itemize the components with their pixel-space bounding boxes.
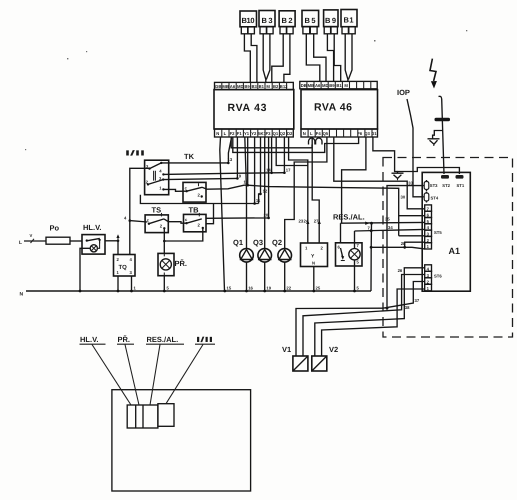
switch TS — [145, 206, 168, 233]
svg-text:22: 22 — [286, 285, 291, 290]
svg-text:ST5: ST5 — [434, 230, 442, 235]
svg-text:I/II: I/II — [196, 335, 213, 344]
junction HL.V. lamp on N bus — [79, 290, 82, 293]
svg-text:IOP: IOP — [397, 88, 410, 97]
wire TB-2 down and left to PR junction — [164, 228, 203, 241]
component ST3 — [424, 180, 438, 191]
svg-text:N: N — [20, 292, 24, 298]
MIDWIRES — [140, 137, 424, 310]
wire TS-1 to TB-c — [164, 219, 187, 223]
wire RVA46 to RES/AL junction — [342, 137, 366, 223]
svg-text:Q5: Q5 — [323, 131, 329, 136]
wire V1-R to A1-t3b — [303, 275, 425, 357]
wire TQ-3 to N bus — [131, 276, 133, 291]
wire B9 right to RVA46 — [334, 34, 341, 82]
svg-text:D2: D2 — [287, 131, 293, 136]
wire Q3 to N bus — [264, 262, 266, 291]
svg-text:F1: F1 — [237, 131, 243, 136]
junction Q3 on N bus, wire 19 — [263, 290, 266, 293]
wire 35 line to A1-t5 — [341, 217, 425, 243]
wire 20 TB to RVA43 — [206, 137, 270, 219]
wire B10 left to RVA43 — [244, 34, 250, 83]
svg-text:V1: V1 — [282, 345, 291, 354]
svg-text:15: 15 — [227, 285, 232, 290]
sensor B1 — [341, 10, 357, 34]
neutral bus wire — [26, 290, 371, 292]
svg-text:A6: A6 — [315, 83, 321, 88]
svg-text:F4: F4 — [316, 131, 322, 136]
vertical junction wire x371 — [370, 223, 373, 291]
wire V1-L to A1-t2b — [296, 282, 425, 357]
svg-text:N: N — [216, 131, 219, 136]
pump Q3 — [253, 238, 272, 262]
svg-text:N: N — [312, 261, 315, 266]
neutral line into A1 area — [371, 247, 425, 249]
sensor B9 — [324, 10, 338, 34]
wire B1 left (V merge) — [345, 34, 348, 82]
arrester electrode bar — [435, 118, 451, 121]
junction RVA43-N on N bus, wire 15 — [223, 290, 226, 293]
dashed enclosure — [383, 158, 513, 338]
PUMPS — [233, 238, 292, 291]
feed Y2 from RVA46 — [312, 137, 321, 243]
svg-text:B9: B9 — [244, 84, 250, 89]
selector switch I/II — [125, 149, 169, 195]
wire 9 I/II to RVA43 — [163, 137, 242, 180]
svg-text:RVA 46: RVA 46 — [314, 102, 352, 114]
svg-text:B3: B3 — [252, 84, 258, 89]
svg-text:Q2: Q2 — [272, 238, 282, 247]
wire 12 — [259, 137, 268, 204]
ground symbol (inside enclosure) — [392, 173, 404, 180]
svg-text:A6: A6 — [230, 84, 236, 89]
svg-text:B2: B2 — [273, 84, 279, 89]
svg-text:B9: B9 — [329, 83, 335, 88]
svg-text:TB: TB — [189, 206, 200, 215]
module A1 body — [422, 172, 470, 291]
wire 34 line to A1-t4 — [355, 225, 425, 249]
signal lamp PR — [158, 253, 187, 275]
svg-text:B1: B1 — [259, 84, 265, 89]
svg-text:A1: A1 — [449, 246, 461, 256]
wire TQ-1 to N bus — [117, 276, 119, 291]
svg-text:38: 38 — [405, 305, 410, 310]
svg-text:L: L — [19, 240, 22, 246]
svg-text:MB: MB — [308, 83, 315, 88]
wire L to fuse — [24, 240, 46, 242]
feed Q2 from RVA46 — [285, 137, 327, 249]
wire junction to TQ-2 — [117, 241, 119, 255]
svg-text:28: 28 — [401, 241, 406, 246]
wire B10 right to RVA43 — [251, 34, 257, 83]
svg-text:ST4: ST4 — [431, 196, 439, 201]
wire TS-2 down to PR junction — [163, 228, 165, 241]
wire fuse to HL.V. — [70, 240, 82, 242]
wire B2 left to RVA43 — [272, 34, 283, 83]
reset/alarm unit RES./AL. — [333, 213, 365, 267]
svg-text:L: L — [310, 131, 313, 136]
svg-text:B12: B12 — [280, 84, 288, 89]
svg-text:Q1: Q1 — [273, 131, 279, 136]
svg-text:30: 30 — [401, 195, 406, 200]
wire 10 TK to A1-t6 — [202, 137, 425, 236]
pump Q2 — [272, 238, 292, 262]
svg-text:25: 25 — [316, 285, 321, 290]
PANEL — [80, 335, 251, 491]
svg-text:13: 13 — [228, 157, 233, 162]
link wire h3 RVA43 to RVA46 — [233, 137, 359, 152]
mechanical link bars — [154, 171, 156, 181]
svg-text:35: 35 — [385, 217, 390, 222]
svg-text:ST6: ST6 — [434, 274, 442, 279]
junction TQ-1 on N bus — [117, 290, 120, 293]
svg-text:17: 17 — [286, 168, 291, 173]
svg-text:Q2: Q2 — [280, 131, 286, 136]
branch to TS input — [130, 221, 148, 222]
arrester ground branch — [433, 131, 443, 139]
label I/II with leader — [166, 335, 215, 404]
main switch HL.V. — [80, 223, 105, 291]
control panel outline — [112, 390, 251, 491]
RVA46 top terminal strip — [300, 81, 377, 88]
svg-text:34: 34 — [388, 225, 393, 230]
RVA46 — [300, 81, 378, 144]
VVALVES — [282, 345, 338, 371]
wire Y-N to bus — [313, 267, 315, 292]
svg-text:F6: F6 — [357, 131, 363, 136]
wire 33 RVA46 to ST3 and A1-t7 — [334, 137, 425, 310]
sensor B2 — [279, 11, 295, 34]
svg-text:11: 11 — [256, 198, 261, 203]
wire IOP down to ST4 — [407, 99, 424, 197]
pad ST1 — [456, 175, 464, 179]
scan specks — [25, 30, 467, 150]
wire RVA43-N to bus — [220, 137, 225, 291]
label HL.V. with leader — [80, 335, 132, 405]
RVA43 bottom terminal strip — [215, 129, 294, 137]
svg-text:24: 24 — [304, 219, 309, 224]
connector humps below RVA46 N,L — [309, 138, 315, 145]
wire B3 left (V merge) — [263, 34, 266, 83]
svg-text:Q3: Q3 — [253, 238, 263, 247]
svg-text:V: V — [30, 233, 33, 238]
svg-text:MD: MD — [237, 84, 244, 89]
link wire h1 RVA43 to RVA46 — [231, 137, 312, 148]
A1 lower terminal block 4..1 — [425, 265, 443, 291]
svg-text:M: M — [344, 83, 348, 88]
pump Q1 — [233, 238, 253, 262]
wire B3 right (V merge) — [266, 34, 270, 80]
wire B1 right (V merge) — [348, 34, 352, 80]
RIGHTAREA — [383, 59, 513, 337]
svg-text:ST2: ST2 — [442, 183, 450, 188]
svg-text:F3: F3 — [266, 131, 272, 136]
svg-text:16: 16 — [248, 285, 253, 290]
pad ST2 — [441, 175, 449, 179]
switch TK — [183, 152, 206, 202]
SWITCHES — [125, 149, 214, 292]
svg-text:HL.V.: HL.V. — [83, 223, 101, 232]
YBOX — [0, 0, 1, 1]
feed Q1 — [245, 137, 247, 249]
feed Y1 from RVA43 — [276, 137, 309, 243]
wire PR bottom to N bus — [163, 276, 165, 291]
svg-text:Po: Po — [50, 224, 60, 233]
junction RES lamp on N bus, wire 5 — [353, 290, 356, 293]
panel control strip — [127, 404, 174, 428]
wire Q1 to N bus — [246, 262, 248, 291]
svg-text:L: L — [224, 131, 227, 136]
RVA43 — [214, 82, 294, 137]
valve V2 — [312, 345, 338, 371]
sensor B3 — [259, 11, 275, 34]
LEFTAREA — [19, 168, 149, 291]
RVA43 top terminal strip — [215, 82, 294, 89]
wire B5 right to RVA46 — [314, 34, 326, 82]
svg-text:TS: TS — [152, 206, 162, 215]
svg-text:B1: B1 — [344, 16, 354, 25]
svg-text:ST1: ST1 — [457, 183, 465, 188]
lightning strike symbol — [430, 59, 437, 89]
wire V2-R to A1-t1b — [322, 289, 425, 356]
svg-text:MD: MD — [322, 83, 329, 88]
svg-text:27: 27 — [314, 219, 319, 224]
sensor B10 — [240, 11, 257, 34]
svg-text:PŘ.: PŘ. — [175, 259, 188, 268]
svg-text:Q3: Q3 — [364, 131, 370, 136]
svg-text:ST3: ST3 — [430, 183, 438, 188]
SENSORS — [240, 10, 357, 34]
svg-text:TQ: TQ — [119, 264, 128, 271]
wire B2 right to RVA43 — [284, 34, 290, 83]
wire Q2 to N bus — [284, 262, 286, 291]
RVA46 bottom terminal strip — [301, 129, 378, 137]
junction PR lamp on N bus — [163, 290, 166, 293]
svg-text:N: N — [303, 131, 306, 136]
svg-text:Q1: Q1 — [233, 238, 243, 247]
wire B5 left to RVA46 — [306, 34, 320, 82]
wire 11 I/II to RVA43 — [140, 137, 261, 205]
disconnect tick on L wire — [31, 239, 35, 243]
SENSORWIRES — [244, 34, 352, 83]
svg-text:I/II: I/II — [125, 149, 145, 158]
svg-text:RES./AL.: RES./AL. — [147, 335, 179, 344]
wire 13 I/II to RVA43 — [161, 137, 233, 164]
actuator Y — [301, 243, 328, 267]
svg-text:B1: B1 — [336, 83, 342, 88]
svg-text:M: M — [266, 84, 270, 89]
svg-text:DB: DB — [215, 84, 221, 89]
wire B9 left to RVA46 — [327, 34, 333, 82]
svg-text:PŘ.: PŘ. — [118, 335, 131, 344]
junction TQ-3 on N bus — [130, 290, 133, 293]
thermostat TQ — [114, 255, 136, 277]
switch TB — [184, 206, 207, 232]
A1 upper terminal block 7..1 — [425, 205, 443, 249]
wire I/II-1 to TK-c — [163, 189, 186, 191]
component ST4 — [424, 192, 439, 203]
svg-text:F2: F2 — [230, 131, 236, 136]
label RES./AL. with leader — [146, 335, 184, 405]
svg-text:37: 37 — [415, 298, 420, 303]
hanger wire from wire11 to TB — [206, 203, 214, 223]
wire RES lamp to N bus — [354, 260, 356, 291]
switch blade — [87, 238, 100, 240]
valve V1 — [282, 345, 308, 371]
svg-text:V2: V2 — [329, 345, 338, 354]
wire HL.V. output — [105, 240, 118, 242]
svg-text:26: 26 — [398, 268, 403, 273]
lamp in HL.V. — [90, 245, 97, 252]
svg-text:B10: B10 — [242, 16, 255, 25]
surge arrester lead — [439, 96, 445, 174]
svg-text:RES./AL.: RES./AL. — [333, 213, 365, 222]
lamp HL.V. to N — [80, 248, 90, 291]
junction Q1 on N bus, wire 16 — [245, 290, 248, 293]
wire RVA46 to ground — [373, 137, 398, 172]
svg-text:RVA 43: RVA 43 — [228, 102, 267, 114]
YBOX — [301, 243, 328, 291]
junction Q2 on N bus, wire 22 — [283, 290, 286, 293]
svg-text:19: 19 — [266, 285, 271, 290]
A1AREA — [296, 172, 470, 356]
svg-text:MB: MB — [222, 84, 229, 89]
controller RVA 46 body — [301, 90, 378, 129]
junction Y-N on N bus, wire 25 — [312, 290, 315, 293]
wire ST1 to ground — [398, 168, 460, 175]
svg-text:TK: TK — [184, 152, 195, 161]
RESAL — [333, 213, 425, 292]
label PR. with leader — [117, 335, 139, 405]
sensor B5 — [302, 10, 319, 33]
arrow stub up at junction — [117, 236, 119, 241]
feed Q3 — [264, 137, 266, 249]
lamp in RES./AL. — [349, 249, 360, 260]
wire 28 to A1-t2 — [401, 241, 425, 248]
controller RVA 43 body — [214, 90, 294, 129]
svg-text:HL.V.: HL.V. — [80, 335, 98, 344]
NBUS — [20, 285, 372, 297]
wire TQ-4 up to I/II and TS branch — [130, 168, 149, 254]
wire PR top — [163, 241, 165, 253]
svg-text:Y2: Y2 — [251, 131, 257, 136]
ground symbol (arrester) — [428, 139, 440, 146]
svg-text:DB: DB — [301, 83, 307, 88]
wire 14/17 I/II to RVA43 — [163, 137, 291, 174]
wire V2-L to A1-t4b — [315, 268, 425, 356]
svg-text:D1: D1 — [371, 131, 377, 136]
svg-text:Y1: Y1 — [244, 131, 250, 136]
